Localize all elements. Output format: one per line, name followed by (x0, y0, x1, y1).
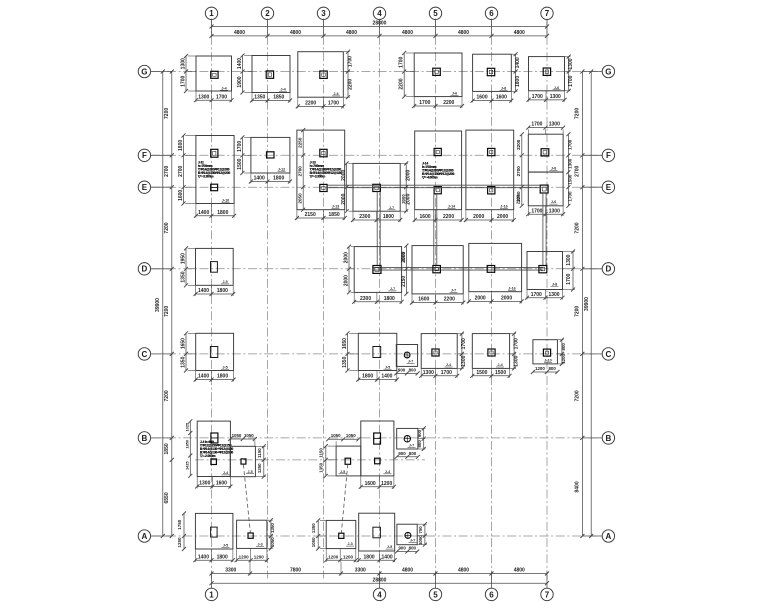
svg-text:1700: 1700 (568, 75, 574, 86)
svg-text:J-3: J-3 (347, 542, 352, 546)
svg-text:J-7: J-7 (451, 289, 456, 293)
svg-text:1700: 1700 (568, 139, 573, 150)
svg-text:1500: 1500 (495, 370, 506, 376)
svg-text:1400: 1400 (198, 288, 209, 294)
footing J-5 axis4 row A large (359, 513, 395, 551)
svg-text:J-8: J-8 (501, 86, 506, 90)
svg-text:2700: 2700 (178, 165, 184, 176)
column axis2 row G (266, 71, 273, 78)
column circular row C (404, 352, 410, 358)
svg-text:1700: 1700 (461, 338, 467, 349)
column axis6 row C (488, 349, 495, 356)
svg-text:2700: 2700 (298, 166, 303, 177)
grid axis 4 centerline (379, 20, 381, 588)
dimension row top bays 4800 (212, 35, 548, 37)
svg-text:2000: 2000 (473, 214, 484, 220)
axis bubble G right (602, 65, 614, 77)
svg-text:1800: 1800 (515, 76, 521, 87)
svg-text:4800: 4800 (458, 567, 469, 573)
svg-text:39900: 39900 (584, 297, 590, 311)
dimension row top total 28800 (212, 26, 548, 28)
column axis5 row F (434, 148, 441, 155)
svg-text:J-4: J-4 (223, 471, 229, 475)
svg-text:900: 900 (417, 429, 422, 437)
svg-text:2300: 2300 (359, 214, 370, 220)
column axis6 row D (487, 266, 495, 273)
svg-text:J-5: J-5 (222, 280, 227, 284)
svg-text:J-16: J-16 (500, 204, 507, 208)
svg-text:28800: 28800 (373, 21, 387, 27)
footing J-6 axis3 row G (298, 52, 344, 97)
svg-text:J-5: J-5 (247, 470, 252, 474)
svg-text:1800: 1800 (178, 140, 184, 151)
tie beam axis4 E-D (376, 192, 378, 266)
svg-text:2200: 2200 (443, 100, 454, 106)
svg-text:1050: 1050 (346, 433, 356, 438)
column axis5 row D (433, 266, 441, 273)
svg-text:D: D (606, 265, 612, 274)
svg-text:1800: 1800 (217, 554, 228, 560)
axis bubble C left (138, 348, 150, 360)
axis bubble 4 bottom (373, 588, 385, 600)
axis bubble 1 top (205, 7, 217, 19)
svg-text:1050: 1050 (331, 433, 341, 438)
svg-text:5: 5 (433, 9, 438, 18)
dashed link row B to row A left (243, 465, 250, 534)
svg-text:1800: 1800 (364, 554, 375, 560)
dimension row bottom bays (212, 573, 548, 575)
svg-text:2300: 2300 (360, 296, 371, 302)
column axis7 row C (543, 349, 550, 356)
svg-text:750: 750 (418, 526, 423, 534)
svg-text:1400: 1400 (198, 210, 209, 216)
axis bubble 6 top (485, 7, 497, 19)
grid axis 6 centerline (491, 20, 493, 588)
svg-text:J-5: J-5 (223, 544, 228, 548)
svg-text:1700: 1700 (399, 56, 405, 67)
grid row B-lower centerline (195, 459, 425, 461)
svg-text:1350: 1350 (257, 463, 262, 473)
column axis1 row C (210, 347, 217, 358)
svg-text:1250: 1250 (177, 537, 182, 548)
svg-text:4800: 4800 (514, 30, 525, 36)
column axis4 row B upper (374, 433, 381, 444)
footing J-3 axis4 row A small (326, 520, 356, 548)
svg-text:800: 800 (417, 440, 422, 448)
svg-text:J-8: J-8 (551, 166, 556, 170)
grid axis 3 centerline (323, 20, 325, 579)
footing J-7 axis5 row D (412, 246, 463, 294)
grid row D centerline (151, 268, 602, 270)
svg-text:1500: 1500 (476, 370, 487, 376)
svg-text:2200: 2200 (443, 214, 454, 220)
dashed link row B to row A right (341, 464, 348, 533)
svg-text:J-8: J-8 (552, 282, 557, 286)
svg-text:7800: 7800 (290, 567, 301, 573)
svg-text:1400: 1400 (382, 554, 393, 560)
footing J-4 axis4 row B large (361, 421, 394, 476)
svg-text:A: A (606, 532, 612, 541)
footing J-14 axis5 rows F-E (415, 131, 462, 210)
column row B small left (241, 459, 246, 464)
svg-text:▽=-2.000m: ▽=-2.000m (199, 454, 216, 458)
svg-text:800: 800 (548, 366, 556, 371)
svg-text:28800: 28800 (373, 577, 387, 583)
axis bubble C right (602, 348, 614, 360)
footing J-4 axis6 row C (472, 334, 509, 369)
svg-text:2000: 2000 (401, 251, 407, 262)
axis bubble G left (138, 65, 150, 77)
svg-text:1350: 1350 (180, 356, 186, 367)
svg-text:7200: 7200 (164, 306, 170, 317)
axis extension stubs (211, 19, 213, 36)
svg-text:1300: 1300 (180, 58, 186, 69)
svg-text:1850: 1850 (164, 443, 170, 454)
column row B small right (345, 458, 351, 464)
svg-text:800: 800 (409, 451, 417, 456)
svg-text:3: 3 (321, 9, 326, 18)
svg-text:1850: 1850 (329, 212, 340, 218)
svg-text:1800: 1800 (217, 288, 228, 294)
axis bubble D right (602, 263, 614, 275)
svg-text:1700: 1700 (531, 208, 542, 214)
svg-text:800: 800 (561, 343, 566, 351)
footing J-7 axis4 row D (354, 247, 401, 293)
column axis5 row E (434, 187, 441, 194)
axis bubble 2 top (261, 7, 273, 19)
svg-text:C: C (142, 350, 148, 359)
svg-text:1600: 1600 (178, 190, 184, 201)
svg-text:E: E (606, 183, 612, 192)
svg-text:7: 7 (545, 9, 550, 18)
svg-text:2000: 2000 (497, 214, 508, 220)
svg-text:4800: 4800 (346, 30, 357, 36)
svg-text:1025: 1025 (185, 422, 190, 431)
svg-text:1300: 1300 (513, 355, 519, 366)
column axis7 row D (539, 266, 547, 273)
footing J-13 axis3 rows F-E (297, 130, 345, 210)
column axis4 row D (373, 266, 381, 274)
svg-text:8400: 8400 (575, 481, 581, 492)
svg-text:1800: 1800 (383, 214, 394, 220)
svg-text:J-5: J-5 (222, 365, 227, 369)
footing J-8 axis7 row D (527, 252, 563, 290)
svg-text:1600: 1600 (216, 481, 227, 487)
svg-text:J-6: J-6 (452, 91, 457, 95)
footing J-7 axis4 row E (353, 163, 400, 211)
svg-text:900: 900 (398, 451, 406, 456)
svg-text:1: 1 (209, 9, 214, 18)
svg-text:1150: 1150 (319, 448, 324, 458)
svg-text:E: E (142, 183, 148, 192)
svg-text:2000: 2000 (406, 193, 412, 204)
svg-text:1700: 1700 (237, 141, 243, 152)
svg-text:7200: 7200 (164, 108, 170, 119)
svg-text:1200: 1200 (254, 554, 265, 559)
footing J-5 axis1 row D (196, 248, 234, 285)
svg-text:3300: 3300 (355, 567, 366, 573)
svg-text:J-3: J-3 (257, 542, 262, 546)
svg-text:2200: 2200 (305, 101, 316, 107)
column axis7 row E (540, 185, 548, 193)
svg-text:1850: 1850 (185, 440, 190, 449)
svg-text:1200: 1200 (381, 481, 392, 487)
tie beam row D (373, 267, 543, 269)
svg-text:J-6: J-6 (551, 200, 556, 204)
footing J-16 axis6 row D (469, 243, 522, 291)
svg-text:1700: 1700 (532, 94, 543, 100)
footing J-6 axis5 row G (414, 53, 462, 97)
grid row A centerline (151, 535, 602, 537)
footing J-7 stair axis4 row C (396, 345, 417, 367)
svg-text:1800: 1800 (273, 176, 284, 182)
axis bubble F left (138, 149, 150, 161)
svg-text:6: 6 (489, 9, 494, 18)
svg-text:1200: 1200 (328, 554, 339, 559)
svg-text:2000: 2000 (341, 193, 347, 204)
svg-text:1300: 1300 (566, 254, 572, 265)
svg-text:2250: 2250 (298, 137, 303, 148)
dimension column left bays (171, 72, 173, 537)
svg-text:1600: 1600 (476, 95, 487, 101)
axis bubble 6 bottom (485, 588, 497, 600)
column axis1 row A (211, 527, 218, 537)
svg-text:1700: 1700 (216, 94, 227, 100)
svg-text:4800: 4800 (514, 567, 525, 573)
column axis7 row G (543, 68, 550, 75)
svg-text:1400: 1400 (254, 176, 265, 182)
column axis4 row A (373, 527, 381, 538)
axis bubble 1 bottom (205, 588, 217, 600)
column axis3 row E (320, 184, 327, 191)
svg-text:4: 4 (377, 590, 382, 599)
footing J-16 axis6 rows F-E (466, 130, 514, 210)
column axis1 row D (211, 262, 218, 273)
svg-text:1150: 1150 (257, 448, 262, 458)
dimension column left total (162, 72, 164, 537)
svg-text:7: 7 (545, 590, 550, 599)
svg-text:4800: 4800 (402, 30, 413, 36)
svg-text:1700: 1700 (347, 56, 353, 67)
svg-text:1200: 1200 (239, 554, 250, 559)
svg-text:1: 1 (209, 590, 214, 599)
column axis4 row E (373, 184, 381, 191)
svg-text:6550: 6550 (164, 492, 170, 503)
svg-text:1300: 1300 (549, 121, 560, 127)
column axis1 row B upper (211, 433, 218, 443)
axis bubble A left (138, 530, 150, 542)
column axis5 row G (433, 68, 441, 75)
svg-text:J-12: J-12 (278, 167, 285, 171)
svg-text:1650: 1650 (180, 338, 186, 349)
column axis4 row B lower (375, 458, 381, 464)
svg-text:4800: 4800 (402, 567, 413, 573)
svg-text:3300: 3300 (225, 567, 236, 573)
column axis5 row C (432, 349, 439, 356)
grid row G centerline (151, 71, 602, 73)
svg-text:1600: 1600 (496, 95, 507, 101)
svg-text:1500: 1500 (568, 174, 573, 185)
column axis4 row C (373, 347, 381, 358)
column axis6 row E (488, 187, 495, 194)
svg-text:2200: 2200 (444, 297, 455, 303)
svg-text:F: F (142, 151, 147, 160)
dimension column right bays (581, 72, 583, 537)
svg-text:G: G (605, 67, 611, 76)
footing J-5 axis1 row A large (195, 513, 233, 549)
svg-text:1050: 1050 (418, 535, 423, 545)
svg-text:2000: 2000 (341, 170, 347, 181)
svg-text:1350: 1350 (254, 95, 265, 101)
column axis1 row G (211, 71, 218, 78)
svg-text:G: G (141, 67, 147, 76)
svg-text:4: 4 (377, 9, 382, 18)
footing J-4 axis1 row G (196, 56, 232, 91)
svg-text:1900: 1900 (237, 76, 243, 87)
footing J-3 axis1 row A small (237, 520, 267, 548)
axis bubble E right (602, 181, 614, 193)
svg-text:J-10: J-10 (544, 358, 551, 362)
svg-text:B: B (606, 434, 612, 443)
column circular row A (405, 532, 411, 538)
svg-text:1350: 1350 (311, 523, 316, 533)
axis bubble E left (138, 181, 150, 193)
svg-text:1300: 1300 (568, 58, 574, 69)
axis bubble F right (602, 149, 614, 161)
svg-text:2000: 2000 (501, 296, 512, 302)
svg-text:J-4: J-4 (385, 470, 391, 474)
column row A small right (339, 533, 344, 538)
svg-text:J-7: J-7 (389, 206, 394, 210)
svg-text:1200: 1200 (561, 353, 566, 363)
grid row C centerline (151, 353, 602, 355)
svg-text:1700: 1700 (419, 100, 430, 106)
column circular row B (404, 436, 410, 442)
svg-text:J-7: J-7 (409, 444, 414, 448)
axis bubble A right (602, 530, 614, 542)
svg-text:1800: 1800 (217, 374, 228, 380)
svg-text:4800: 4800 (234, 30, 245, 36)
svg-text:2700: 2700 (516, 166, 521, 177)
svg-text:1750: 1750 (177, 519, 182, 530)
tie beam axis7 E-D (542, 193, 544, 266)
svg-text:2200: 2200 (516, 194, 521, 204)
grid axis 5 centerline (435, 20, 437, 588)
svg-text:5: 5 (433, 590, 438, 599)
svg-text:2200: 2200 (399, 78, 405, 89)
footing J-10 axis7 row C (533, 340, 558, 364)
svg-text:J-4: J-4 (497, 363, 503, 367)
svg-text:A: A (142, 532, 148, 541)
svg-text:7200: 7200 (164, 222, 170, 233)
footing J-7 stair row A (397, 524, 417, 545)
svg-text:1500: 1500 (237, 158, 243, 169)
footing J-5 axis1 row C (196, 333, 234, 370)
svg-text:J-5: J-5 (340, 470, 345, 474)
grid axis 7 centerline (546, 20, 548, 588)
svg-text:1700: 1700 (566, 273, 572, 284)
svg-text:4800: 4800 (290, 30, 301, 36)
svg-text:2000: 2000 (406, 170, 412, 181)
svg-text:J-10: J-10 (222, 198, 229, 202)
svg-text:900: 900 (398, 368, 406, 373)
axis bubble 5 bottom (429, 588, 441, 600)
svg-text:J-7: J-7 (410, 539, 415, 543)
footing J-8 axis6 row G (473, 54, 512, 91)
svg-text:7200: 7200 (575, 390, 581, 401)
svg-text:1050: 1050 (232, 433, 242, 438)
footing J-5 axis1 row B small (230, 446, 255, 476)
svg-text:1300: 1300 (548, 292, 559, 298)
svg-text:J-4: J-4 (446, 363, 452, 367)
svg-text:2000: 2000 (475, 296, 486, 302)
svg-text:J-5: J-5 (385, 365, 390, 369)
footing J-6 axis7 row G (529, 57, 565, 91)
svg-text:1400: 1400 (198, 554, 209, 560)
grid row B centerline (151, 437, 602, 439)
footing J-7 stair row B (397, 428, 418, 449)
svg-text:1700: 1700 (568, 191, 573, 202)
svg-text:J-6: J-6 (333, 92, 338, 96)
footing J-10 axis1 rows F-E (196, 136, 234, 204)
svg-text:1300: 1300 (549, 208, 560, 214)
footing J-5 axis4 row B small (336, 446, 361, 476)
svg-text:J-5: J-5 (387, 545, 392, 549)
tie beam row E (327, 184, 540, 186)
column axis1 row E (211, 184, 218, 191)
svg-text:B: B (142, 434, 148, 443)
svg-text:7200: 7200 (575, 108, 581, 119)
svg-text:1400: 1400 (381, 374, 392, 380)
grid row F centerline (151, 154, 602, 156)
svg-text:F: F (606, 151, 611, 160)
axis bubble B right (602, 432, 614, 444)
svg-text:1700: 1700 (513, 338, 519, 349)
svg-text:C: C (606, 350, 612, 359)
svg-text:1600: 1600 (420, 214, 431, 220)
svg-text:1800: 1800 (217, 210, 228, 216)
svg-text:1700: 1700 (531, 121, 542, 127)
svg-text:2700: 2700 (164, 165, 170, 176)
axis bubble 4 top (373, 7, 385, 19)
svg-text:▽=-3.300m: ▽=-3.300m (309, 175, 326, 179)
svg-text:1400: 1400 (237, 58, 243, 69)
svg-text:J-16: J-16 (508, 286, 515, 290)
svg-text:1850: 1850 (273, 95, 284, 101)
column axis1 row F (211, 149, 218, 157)
svg-text:2000: 2000 (343, 275, 349, 286)
svg-text:2: 2 (265, 9, 270, 18)
svg-text:J-4: J-4 (280, 87, 286, 91)
tie beam axis5 E-D (433, 194, 435, 266)
grid axis 1 centerline (211, 20, 213, 588)
svg-text:1350: 1350 (319, 462, 324, 472)
svg-text:1950: 1950 (180, 253, 186, 264)
svg-text:2000: 2000 (343, 252, 349, 263)
footing J-12 axis2 row F (251, 137, 290, 173)
svg-text:1600: 1600 (365, 481, 376, 487)
svg-text:1700: 1700 (180, 75, 186, 86)
svg-text:J-7: J-7 (390, 287, 395, 291)
svg-text:J-7: J-7 (408, 360, 413, 364)
svg-text:1300: 1300 (461, 355, 467, 366)
footing J-8 axis7 rows F-E stacked (528, 134, 563, 206)
footing J-4 axis2 row G (252, 56, 290, 93)
grid row E centerline (151, 186, 602, 188)
svg-text:1800: 1800 (384, 296, 395, 302)
svg-text:1050: 1050 (270, 537, 275, 547)
svg-text:7200: 7200 (164, 390, 170, 401)
